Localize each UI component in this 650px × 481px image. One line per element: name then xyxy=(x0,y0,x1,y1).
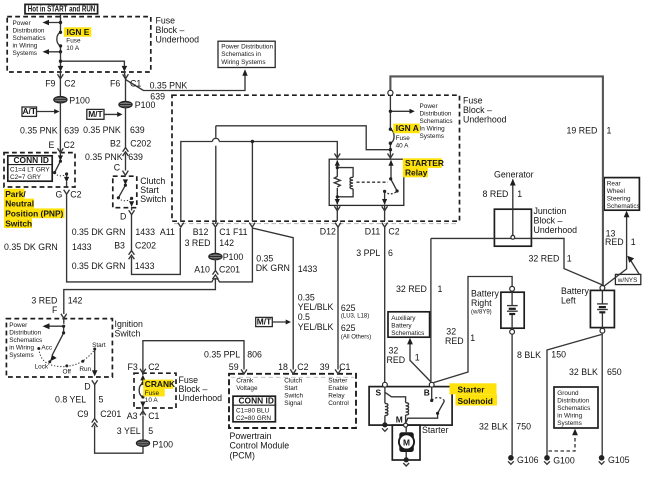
svg-text:(w/8Y9): (w/8Y9) xyxy=(471,309,492,315)
svg-text:D11: D11 xyxy=(365,227,381,237)
svg-text:0.35 DK GRN: 0.35 DK GRN xyxy=(72,227,126,237)
svg-text:625: 625 xyxy=(341,303,356,313)
svg-text:1: 1 xyxy=(631,237,636,247)
svg-text:3 RED: 3 RED xyxy=(31,295,57,305)
svg-text:IGN E: IGN E xyxy=(67,27,90,37)
svg-text:C2=80 GRN: C2=80 GRN xyxy=(236,415,271,422)
svg-text:G: G xyxy=(56,190,63,200)
svg-text:C2: C2 xyxy=(64,140,75,150)
svg-text:Ground: Ground xyxy=(557,390,579,397)
svg-text:M: M xyxy=(403,437,410,447)
svg-text:F: F xyxy=(52,305,58,315)
svg-text:P100: P100 xyxy=(153,440,174,450)
svg-text:B3: B3 xyxy=(114,241,125,251)
svg-text:Fuse: Fuse xyxy=(66,38,81,45)
svg-text:Neutral: Neutral xyxy=(5,199,34,209)
svg-text:59: 59 xyxy=(229,362,239,372)
svg-text:M: M xyxy=(396,415,403,425)
svg-text:Battery: Battery xyxy=(391,323,412,330)
svg-text:IGN A: IGN A xyxy=(396,123,419,133)
svg-text:639: 639 xyxy=(130,125,145,135)
svg-text:E: E xyxy=(49,140,55,150)
svg-text:32: 32 xyxy=(446,327,456,337)
svg-text:Block –: Block – xyxy=(463,105,492,115)
svg-text:Distribution: Distribution xyxy=(9,329,41,336)
svg-text:Distribution: Distribution xyxy=(420,110,452,117)
svg-text:Fuse: Fuse xyxy=(156,16,176,26)
svg-text:Battery: Battery xyxy=(471,289,499,299)
svg-text:Start: Start xyxy=(284,385,298,392)
svg-text:D: D xyxy=(84,382,90,392)
svg-text:C1=4 LT GRY: C1=4 LT GRY xyxy=(10,167,50,174)
svg-text:Underhood: Underhood xyxy=(179,393,223,403)
svg-text:5: 5 xyxy=(99,395,104,405)
svg-text:C2: C2 xyxy=(64,79,75,89)
svg-text:Schematics in: Schematics in xyxy=(221,51,261,58)
svg-text:6: 6 xyxy=(388,248,393,258)
svg-text:C201: C201 xyxy=(219,265,240,275)
svg-text:F3: F3 xyxy=(128,362,138,372)
svg-text:Distribution: Distribution xyxy=(557,397,589,404)
svg-text:P100: P100 xyxy=(69,95,90,105)
svg-text:650: 650 xyxy=(607,367,622,377)
svg-text:in Wiring: in Wiring xyxy=(557,412,582,419)
svg-text:1: 1 xyxy=(517,189,522,199)
svg-text:Park/: Park/ xyxy=(5,189,26,199)
svg-text:1: 1 xyxy=(415,352,420,362)
svg-text:1433: 1433 xyxy=(135,261,155,271)
svg-text:1433: 1433 xyxy=(135,227,155,237)
svg-text:625: 625 xyxy=(341,323,356,333)
svg-text:Starter: Starter xyxy=(422,425,448,435)
svg-text:(All Others): (All Others) xyxy=(341,335,371,341)
svg-text:YEL/BLK: YEL/BLK xyxy=(298,322,334,332)
svg-text:0.35 PPL: 0.35 PPL xyxy=(204,349,240,359)
svg-text:32 BLK: 32 BLK xyxy=(569,367,598,377)
svg-text:Power Distribution: Power Distribution xyxy=(221,44,273,51)
svg-text:Clutch: Clutch xyxy=(284,377,303,384)
svg-text:3 YEL: 3 YEL xyxy=(117,426,141,436)
svg-text:C2: C2 xyxy=(70,190,81,200)
svg-text:Signal: Signal xyxy=(284,400,302,407)
svg-text:Starter: Starter xyxy=(458,385,486,395)
svg-text:Fuse: Fuse xyxy=(396,135,411,142)
svg-text:CONN ID: CONN ID xyxy=(239,395,274,405)
svg-text:C201: C201 xyxy=(100,409,121,419)
svg-text:639: 639 xyxy=(128,152,143,162)
svg-text:40 A: 40 A xyxy=(396,143,410,150)
svg-text:D12: D12 xyxy=(320,226,336,236)
svg-text:0.35 DK GRN: 0.35 DK GRN xyxy=(4,242,58,252)
svg-text:Switch: Switch xyxy=(115,329,141,339)
svg-text:Schematics: Schematics xyxy=(9,337,42,344)
svg-text:8 BLK: 8 BLK xyxy=(517,350,541,360)
svg-text:A/T: A/T xyxy=(22,106,36,116)
svg-text:Fuse: Fuse xyxy=(463,96,483,106)
svg-text:B2: B2 xyxy=(110,139,121,149)
svg-text:Hot in START and RUN: Hot in START and RUN xyxy=(28,4,96,14)
svg-text:32 BLK: 32 BLK xyxy=(479,421,508,431)
svg-text:(PCM): (PCM) xyxy=(230,450,255,460)
svg-text:C1 F11: C1 F11 xyxy=(219,227,247,237)
svg-text:0.35: 0.35 xyxy=(256,253,273,263)
svg-text:Relay: Relay xyxy=(328,392,345,399)
svg-text:DK GRN: DK GRN xyxy=(256,263,290,273)
svg-text:Block –: Block – xyxy=(156,25,185,35)
svg-text:C1: C1 xyxy=(339,362,350,372)
svg-text:C2: C2 xyxy=(388,227,399,237)
svg-text:Left: Left xyxy=(561,296,576,306)
svg-text:150: 150 xyxy=(551,349,566,359)
svg-text:142: 142 xyxy=(68,296,83,306)
svg-text:Auxiliary: Auxiliary xyxy=(391,315,416,322)
svg-text:639: 639 xyxy=(64,126,79,136)
svg-text:8 RED: 8 RED xyxy=(483,189,509,199)
svg-text:Schematics: Schematics xyxy=(607,203,640,210)
svg-text:Rear: Rear xyxy=(607,180,622,187)
svg-text:C1: C1 xyxy=(130,79,141,89)
svg-text:3 PPL: 3 PPL xyxy=(356,248,380,258)
svg-text:0.8 YEL: 0.8 YEL xyxy=(55,395,86,405)
svg-text:P100: P100 xyxy=(135,100,156,110)
svg-text:32 RED: 32 RED xyxy=(396,284,427,294)
svg-text:5: 5 xyxy=(148,426,153,436)
svg-text:G105: G105 xyxy=(608,455,630,465)
svg-text:CONN ID: CONN ID xyxy=(14,155,49,165)
svg-text:18: 18 xyxy=(278,362,288,372)
svg-text:Crank: Crank xyxy=(236,377,254,384)
svg-text:Distribution: Distribution xyxy=(13,28,45,35)
svg-text:Generator: Generator xyxy=(494,170,534,180)
svg-text:M/T: M/T xyxy=(257,317,272,327)
svg-text:3 RED: 3 RED xyxy=(185,238,211,248)
svg-text:F6: F6 xyxy=(110,78,120,88)
svg-text:M/T: M/T xyxy=(88,109,103,119)
svg-text:Junction: Junction xyxy=(534,206,567,216)
svg-text:Wheel: Wheel xyxy=(607,188,625,195)
svg-text:Systems: Systems xyxy=(420,133,445,140)
svg-text:10 A: 10 A xyxy=(66,45,80,52)
svg-text:Schematics: Schematics xyxy=(420,118,453,125)
svg-text:C2: C2 xyxy=(148,362,159,372)
svg-text:32: 32 xyxy=(389,345,399,355)
svg-text:F9: F9 xyxy=(45,78,55,88)
svg-text:Schematics: Schematics xyxy=(557,405,590,412)
svg-text:C1: C1 xyxy=(148,411,159,421)
svg-text:Fuse: Fuse xyxy=(145,390,160,397)
svg-text:B12: B12 xyxy=(193,227,209,237)
svg-text:In Wiring: In Wiring xyxy=(420,125,446,132)
svg-text:1433: 1433 xyxy=(72,242,92,252)
svg-text:10 A: 10 A xyxy=(145,397,159,404)
svg-text:Wiring Systems: Wiring Systems xyxy=(221,59,265,66)
svg-text:Steering: Steering xyxy=(607,195,631,202)
svg-text:Voltage: Voltage xyxy=(236,385,258,392)
svg-text:Switch: Switch xyxy=(5,218,32,228)
svg-text:Systems: Systems xyxy=(9,352,34,359)
svg-text:Off: Off xyxy=(63,368,72,375)
svg-text:Starter: Starter xyxy=(328,377,348,384)
svg-text:Block –: Block – xyxy=(534,215,563,225)
svg-text:Battery: Battery xyxy=(561,286,589,296)
svg-text:RED: RED xyxy=(605,237,624,247)
svg-text:0.5: 0.5 xyxy=(298,312,310,322)
svg-text:Underhood: Underhood xyxy=(534,225,578,235)
svg-text:Control Module: Control Module xyxy=(230,441,290,451)
svg-text:Powertrain: Powertrain xyxy=(230,431,272,441)
svg-text:Power: Power xyxy=(420,103,439,110)
svg-text:in Wiring: in Wiring xyxy=(13,43,38,50)
svg-text:806: 806 xyxy=(247,349,262,359)
svg-text:C202: C202 xyxy=(135,241,156,251)
svg-text:D: D xyxy=(120,211,126,221)
svg-text:Control: Control xyxy=(328,400,349,407)
svg-text:Switch: Switch xyxy=(140,194,166,204)
svg-text:639: 639 xyxy=(150,92,165,102)
svg-text:in Wiring: in Wiring xyxy=(9,344,34,351)
svg-text:Schematics: Schematics xyxy=(13,35,46,42)
svg-text:CRANK: CRANK xyxy=(145,379,175,389)
svg-text:Acc: Acc xyxy=(41,345,52,352)
svg-text:Right: Right xyxy=(471,298,492,308)
svg-text:0.35 DK GRN: 0.35 DK GRN xyxy=(72,261,126,271)
svg-text:Power: Power xyxy=(13,20,32,27)
svg-text:19 RED: 19 RED xyxy=(567,126,598,136)
svg-text:w/NYS: w/NYS xyxy=(617,277,638,284)
svg-text:YEL/BLK: YEL/BLK xyxy=(298,302,334,312)
svg-text:Systems: Systems xyxy=(557,420,582,427)
svg-text:0.35: 0.35 xyxy=(298,292,315,302)
svg-text:1: 1 xyxy=(567,253,572,263)
svg-text:Position (PNP): Position (PNP) xyxy=(5,209,63,219)
svg-text:Relay: Relay xyxy=(405,168,428,178)
svg-text:Solenoid: Solenoid xyxy=(458,396,493,406)
svg-text:1: 1 xyxy=(470,333,475,343)
svg-text:0.35 PNK: 0.35 PNK xyxy=(85,152,123,162)
svg-text:Run: Run xyxy=(79,366,91,373)
svg-text:Systems: Systems xyxy=(13,50,38,57)
svg-text:0.35 PNK: 0.35 PNK xyxy=(83,125,121,135)
svg-text:C: C xyxy=(114,163,121,173)
svg-text:0.35 PNK: 0.35 PNK xyxy=(20,126,58,136)
svg-text:A10: A10 xyxy=(194,265,210,275)
svg-text:1: 1 xyxy=(607,126,612,136)
svg-text:142: 142 xyxy=(219,238,234,248)
svg-text:Start: Start xyxy=(92,342,106,349)
svg-text:750: 750 xyxy=(516,421,531,431)
svg-text:(LU3, L18): (LU3, L18) xyxy=(341,313,369,319)
svg-text:Ignition: Ignition xyxy=(115,319,143,329)
svg-text:Enable: Enable xyxy=(328,385,348,392)
svg-text:Switch: Switch xyxy=(284,392,303,399)
svg-text:S: S xyxy=(376,387,382,397)
svg-text:B: B xyxy=(424,388,430,398)
svg-text:32 RED: 32 RED xyxy=(529,253,560,263)
svg-text:0.35 PNK: 0.35 PNK xyxy=(150,81,188,91)
svg-text:C202: C202 xyxy=(130,139,151,149)
svg-text:P100: P100 xyxy=(223,252,244,262)
svg-text:Underhood: Underhood xyxy=(463,115,507,125)
svg-text:1433: 1433 xyxy=(298,264,318,274)
svg-text:C2: C2 xyxy=(297,362,308,372)
svg-text:C1=80 BLU: C1=80 BLU xyxy=(236,408,270,415)
svg-text:Underhood: Underhood xyxy=(156,35,200,45)
svg-text:A3: A3 xyxy=(127,411,138,421)
svg-text:1: 1 xyxy=(438,284,443,294)
svg-text:C2=7 GRY: C2=7 GRY xyxy=(10,174,42,181)
svg-text:C9: C9 xyxy=(77,409,88,419)
svg-text:39: 39 xyxy=(320,362,330,372)
svg-text:G100: G100 xyxy=(553,456,575,466)
svg-text:A11: A11 xyxy=(160,227,175,237)
svg-text:Lock: Lock xyxy=(35,363,49,370)
svg-text:Power: Power xyxy=(9,322,28,329)
svg-text:RED: RED xyxy=(445,336,464,346)
svg-text:G106: G106 xyxy=(517,455,539,465)
svg-text:Schematics: Schematics xyxy=(391,330,424,337)
svg-text:RED: RED xyxy=(387,355,406,365)
